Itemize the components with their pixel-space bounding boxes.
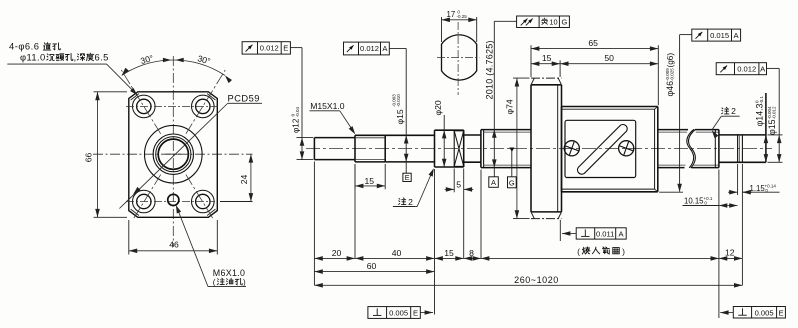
svg-text:φ74: φ74 xyxy=(505,99,515,114)
ball screw thread start (double line) xyxy=(480,130,482,168)
svg-text:0.012: 0.012 xyxy=(260,44,279,53)
svg-text:(g6): (g6) xyxy=(666,53,675,68)
dimension 20 xyxy=(314,257,355,259)
radial centerlines through bolt holes xyxy=(121,70,160,134)
oil hole xyxy=(168,194,179,205)
svg-text:E: E xyxy=(405,173,410,182)
dia74 dimension line xyxy=(516,78,518,219)
svg-text:E: E xyxy=(413,309,418,318)
svg-text:): ) xyxy=(243,278,246,287)
svg-text:0.005: 0.005 xyxy=(389,309,408,318)
svg-text:,: , xyxy=(74,53,77,63)
svg-text:15: 15 xyxy=(444,248,454,258)
perpendicularity frame 0.005 E left xyxy=(368,307,420,319)
groove end face xyxy=(463,130,465,167)
svg-text:0.005: 0.005 xyxy=(755,308,774,317)
nut flat face rectangle xyxy=(565,120,636,177)
nut fixing screw 2 xyxy=(619,141,634,156)
svg-text:-0.025: -0.025 xyxy=(670,68,675,81)
nut flange top edge (dash-dot) xyxy=(531,77,562,79)
bolt hole 2 (counterbored) xyxy=(192,95,215,118)
dia74 extension lines xyxy=(513,77,530,79)
groove width 5 extension lines xyxy=(453,169,455,193)
svg-text:40: 40 xyxy=(392,248,402,258)
dia12 label xyxy=(291,107,301,133)
step face dia15 to dia20 xyxy=(434,130,436,167)
svg-text:0: 0 xyxy=(765,188,769,193)
extension line dia20 step xyxy=(434,169,436,315)
nut body dia46 xyxy=(561,107,563,192)
dimension 65 xyxy=(531,48,658,50)
dia14.3 label xyxy=(755,96,765,127)
dimension 10.15 xyxy=(719,205,738,207)
thread end line xyxy=(384,135,386,162)
dia12 dimension arrows xyxy=(300,138,305,146)
hardened range dimension line xyxy=(481,257,719,259)
thread section M15x1.0 xyxy=(355,134,385,136)
dimension 15 (dia20 section) xyxy=(435,257,464,259)
30 degree arc arrowheads xyxy=(122,68,129,76)
journal end face / dia14.3 dimension line xyxy=(765,93,767,162)
30 degree dimension arc xyxy=(122,60,225,75)
leader frame A to dia15 xyxy=(389,47,406,49)
svg-text:12: 12 xyxy=(725,248,735,258)
front view vertical centerline xyxy=(172,56,174,247)
note 2 leader left xyxy=(415,206,417,208)
groove width dimension 5 (outside arrows) xyxy=(445,188,455,190)
overall length dimension 260~1020 xyxy=(314,284,742,286)
perpendicularity frame 0.005 E right xyxy=(733,307,785,319)
svg-text:4-φ6.6: 4-φ6.6 xyxy=(9,41,39,52)
svg-text:A: A xyxy=(491,178,496,187)
svg-text:66: 66 xyxy=(84,153,94,163)
note 2 label left xyxy=(399,197,414,207)
svg-text:50: 50 xyxy=(604,53,614,63)
leader frame G xyxy=(494,20,516,22)
dimension 50 body width xyxy=(560,63,658,65)
ball screw section right of nut xyxy=(658,129,688,131)
PCD59 leader diagonal line xyxy=(119,104,227,209)
svg-text:): ) xyxy=(622,247,625,257)
perpendicularity frame 0.011 A xyxy=(576,228,626,239)
runout frame 0.012 A (left) xyxy=(344,42,390,55)
svg-text:G: G xyxy=(562,18,568,27)
leader to flange face xyxy=(562,233,576,235)
dimension 24 xyxy=(250,154,252,201)
central bore circles xyxy=(145,125,203,183)
dia12 extension lines xyxy=(297,137,314,139)
svg-text:15: 15 xyxy=(542,53,552,63)
nut fixing screw 1 xyxy=(564,141,579,156)
svg-text:φ20: φ20 xyxy=(433,100,443,115)
screw thread end line xyxy=(714,130,716,168)
section view centerlines xyxy=(457,22,459,95)
dimension 24 extension line xyxy=(220,201,253,203)
thread runout neck xyxy=(464,134,481,136)
dia15 right label xyxy=(767,106,777,135)
front view horizontal centerline xyxy=(93,153,253,155)
circlip groove xyxy=(737,135,739,162)
svg-text:φ12: φ12 xyxy=(291,118,300,133)
ball return tube slot xyxy=(577,124,627,174)
svg-text:-0.04: -0.04 xyxy=(295,107,300,118)
svg-text:-0.010: -0.010 xyxy=(396,94,401,107)
svg-text:20: 20 xyxy=(332,248,342,258)
step extension line right xyxy=(718,170,720,319)
svg-text:17: 17 xyxy=(447,10,456,19)
dimension 8 xyxy=(464,257,481,259)
nut body corner chamfers xyxy=(655,107,658,110)
svg-text:E: E xyxy=(283,44,288,53)
groove dimension 1.15 extension lines xyxy=(737,164,739,195)
center cross xyxy=(165,153,181,155)
svg-text:φ15: φ15 xyxy=(767,119,777,135)
dia20 dimension line xyxy=(443,115,445,167)
svg-text:φ46: φ46 xyxy=(665,81,675,97)
dimension 60 xyxy=(314,271,434,273)
extension line screw start xyxy=(480,170,482,259)
step face dia12 to M15 xyxy=(354,135,356,162)
svg-text:2010 (4.7625): 2010 (4.7625) xyxy=(485,40,495,99)
leader frame E to dia12 journal xyxy=(290,47,302,49)
ball screw section after break xyxy=(695,129,719,131)
svg-text:10.15: 10.15 xyxy=(684,196,704,205)
dimension 17 extension lines xyxy=(441,17,443,42)
dimension 15-50 extension line xyxy=(559,60,561,77)
shaft centerline xyxy=(306,148,772,150)
right end journal dia15 xyxy=(719,134,766,136)
dimension 46 extension lines xyxy=(128,220,130,255)
leader frame to right journal dim xyxy=(767,67,780,69)
end section view circle with flats xyxy=(442,35,477,80)
svg-text:M6X1.0: M6X1.0 xyxy=(213,268,245,278)
shaft section dia15 xyxy=(385,134,434,136)
svg-text:5: 5 xyxy=(456,179,461,189)
ball screw section left of nut: OD and root lines xyxy=(481,129,531,131)
bolt hole horizontal centerline top xyxy=(126,105,220,107)
thread length dimension 15 xyxy=(355,185,385,187)
note 2 label right xyxy=(722,106,737,116)
dia15 right dimension arrows xyxy=(777,135,782,143)
dimension 66 extension lines xyxy=(94,91,128,93)
note leader to bolt hole xyxy=(7,63,106,65)
dimension 46 xyxy=(129,250,218,252)
svg-text:φ15: φ15 xyxy=(395,109,405,124)
dimension 66 xyxy=(97,92,99,218)
svg-text:65: 65 xyxy=(588,38,598,48)
svg-text:φ11.0: φ11.0 xyxy=(20,52,46,63)
right journal extension lines xyxy=(768,134,783,136)
svg-text:-0.012: -0.012 xyxy=(772,106,777,119)
nut flange corner chamfers xyxy=(531,78,534,85)
dimension 40 xyxy=(355,257,435,259)
bolt hole 3 (counterbored) xyxy=(133,190,156,213)
hardened range label (shouyu hanni) xyxy=(577,247,625,257)
shaft break symbol xyxy=(687,129,694,168)
datum G box and target xyxy=(508,177,517,188)
screw OD dimension line / datum A leader xyxy=(493,21,495,177)
svg-text:0.012: 0.012 xyxy=(737,65,756,74)
runout frame 0.012 A (right) xyxy=(716,63,766,75)
thread length 15 extension lines xyxy=(354,164,356,189)
datum A box xyxy=(489,177,499,188)
nut dimension 65 extension lines xyxy=(530,45,532,77)
step face to right journal xyxy=(718,130,720,168)
svg-text:-0.25: -0.25 xyxy=(457,14,468,19)
svg-text:0.015: 0.015 xyxy=(710,31,729,40)
svg-text:-0.1: -0.1 xyxy=(759,96,764,104)
runout frame 0.015 A xyxy=(692,29,741,41)
svg-text:24: 24 xyxy=(239,175,249,185)
svg-text:10: 10 xyxy=(549,18,557,27)
keyway groove box with cross xyxy=(454,131,464,167)
svg-text:8: 8 xyxy=(469,248,474,258)
dimension 17 across flats xyxy=(442,19,477,21)
svg-text:M15X1.0: M15X1.0 xyxy=(310,101,345,111)
svg-text:2: 2 xyxy=(731,106,736,116)
extension line step M15 xyxy=(354,164,356,258)
svg-text:0: 0 xyxy=(704,200,708,205)
leader frame 0.015 to nut OD xyxy=(680,34,692,36)
svg-text:φ14.3: φ14.3 xyxy=(755,103,765,126)
bolt hole 4 (counterbored) xyxy=(192,190,215,213)
dimension 12 xyxy=(719,257,743,259)
svg-text:60: 60 xyxy=(367,261,377,271)
oil hole leader xyxy=(208,286,246,288)
svg-text:46: 46 xyxy=(169,239,179,249)
dia15 dimension arrows xyxy=(404,135,409,143)
dimension 15 flange width xyxy=(531,63,560,65)
dimension 1.15 (outside arrows) xyxy=(728,191,738,193)
runout frame 0.012 E xyxy=(242,42,290,54)
nut OD extension line bottom right xyxy=(659,191,683,193)
note 2 leader right xyxy=(712,116,721,129)
svg-text:1.15: 1.15 xyxy=(750,184,766,193)
svg-text:E: E xyxy=(778,308,783,317)
svg-text:PCD59: PCD59 xyxy=(228,94,260,104)
svg-text:(: ( xyxy=(213,278,216,287)
flange corner chamfer inner lines xyxy=(131,94,139,100)
datum E box xyxy=(403,173,411,181)
bolt hole horizontal centerline bottom xyxy=(126,201,215,203)
svg-text:2: 2 xyxy=(408,197,413,207)
bolt hole 1 (counterbored) xyxy=(133,95,156,118)
nut flange dia74 xyxy=(530,85,532,212)
svg-text:0.011: 0.011 xyxy=(596,230,614,239)
dia46 g6 label xyxy=(665,53,675,97)
flange face extension below xyxy=(559,220,561,241)
svg-text:6.5: 6.5 xyxy=(95,52,109,63)
total runout frame table10 G xyxy=(517,16,570,28)
nut flange bottom edge (dash-dot) xyxy=(531,218,562,220)
extension line shaft left face xyxy=(313,162,315,286)
svg-text:(: ( xyxy=(577,247,580,257)
shaft journal dia12 left end xyxy=(313,138,315,160)
svg-text:15: 15 xyxy=(365,176,375,186)
svg-text:0.012: 0.012 xyxy=(360,44,379,53)
flange plate outline (46x66) xyxy=(129,92,218,218)
svg-text:260~1020: 260~1020 xyxy=(514,275,559,285)
shaft section dia20 xyxy=(435,129,464,131)
svg-text:G: G xyxy=(509,179,515,188)
